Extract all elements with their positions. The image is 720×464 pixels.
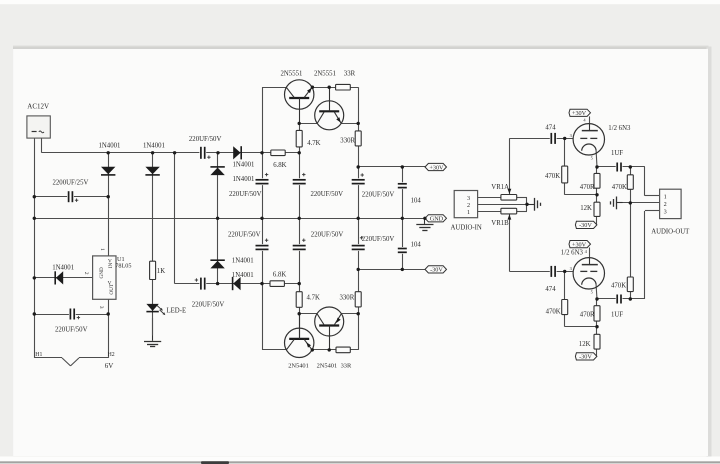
wire GND flag stub bbox=[425, 218, 427, 220]
svg-text:330R: 330R bbox=[340, 138, 355, 145]
svg-text:1: 1 bbox=[664, 194, 667, 201]
wire 104 cap bottom branch bbox=[402, 218, 404, 269]
junction dot 2 bbox=[151, 151, 154, 154]
svg-text:H2: H2 bbox=[108, 352, 115, 358]
resistor 470K load ch2 bbox=[611, 277, 633, 292]
resistor 33R top bbox=[336, 84, 351, 90]
svg-text:AUDIO-OUT: AUDIO-OUT bbox=[651, 229, 690, 236]
svg-text:220UF/50V: 220UF/50V bbox=[55, 326, 88, 333]
power flag -30V ch2 bbox=[575, 353, 597, 361]
wire Q4 emitter link bbox=[341, 313, 358, 315]
junction dot 33 bbox=[401, 268, 404, 271]
svg-text:1UF: 1UF bbox=[611, 311, 623, 318]
diode D1 1N4001 bbox=[99, 143, 121, 175]
diode D10 1N4001 bottom pump bbox=[232, 272, 254, 290]
wire audio-in pin2 to earth bbox=[478, 204, 534, 206]
svg-text:AUDIO-IN: AUDIO-IN bbox=[451, 224, 482, 231]
resistor 470K grid ch2 bbox=[546, 300, 568, 316]
svg-text:220UF/50V: 220UF/50V bbox=[189, 136, 222, 143]
wire Q2 collector link bbox=[299, 123, 317, 125]
wire 78L05 VOUT pin3 bbox=[108, 299, 110, 358]
svg-text:220UF/50V: 220UF/50V bbox=[228, 231, 261, 238]
wire Q1 emitter to 33R bbox=[312, 87, 358, 123]
junction dot 35 bbox=[563, 137, 566, 140]
svg-text:470K: 470K bbox=[546, 308, 561, 315]
wire VR1B right terminal bbox=[517, 204, 527, 211]
capacitor 104 top bbox=[397, 182, 422, 204]
svg-text:1N4001: 1N4001 bbox=[143, 143, 165, 150]
junction dot 36 bbox=[595, 165, 598, 168]
wire cathode ch2 bbox=[595, 285, 598, 356]
capacitor 474 input ch2 bbox=[545, 265, 556, 293]
resistor 470R ch1 bbox=[580, 173, 600, 190]
resistor 330R top bbox=[340, 131, 361, 146]
junction dot 8 bbox=[33, 195, 36, 198]
svg-text:2: 2 bbox=[83, 272, 89, 275]
junction dot 42 bbox=[629, 297, 632, 300]
junction dot 31 bbox=[401, 165, 404, 168]
regulator U1 78L05 bbox=[83, 248, 132, 309]
junction dot 43 bbox=[595, 325, 598, 328]
wire 2200UF row bbox=[34, 196, 108, 198]
diode D6 1N4001 clamp up bbox=[210, 167, 254, 183]
svg-text:6.8K: 6.8K bbox=[273, 162, 286, 169]
svg-text:330R: 330R bbox=[340, 294, 355, 301]
svg-text:33R: 33R bbox=[341, 363, 352, 370]
junction dot 40 bbox=[563, 270, 566, 273]
wire VR1A right terminal bbox=[517, 197, 527, 204]
svg-text:4.7K: 4.7K bbox=[307, 294, 320, 301]
svg-text:OUT: OUT bbox=[109, 283, 115, 294]
junction dot 18 bbox=[423, 217, 426, 220]
svg-text:-30V: -30V bbox=[579, 222, 592, 229]
wire D1 branch bbox=[108, 153, 110, 256]
svg-text:+30V: +30V bbox=[572, 241, 587, 248]
svg-text:VR1B: VR1B bbox=[491, 220, 509, 227]
svg-text:470R: 470R bbox=[580, 311, 595, 318]
svg-text:3: 3 bbox=[467, 195, 470, 202]
wire 330R to +30V output bbox=[358, 123, 360, 218]
svg-text:220UF/50V: 220UF/50V bbox=[362, 236, 395, 243]
ground symbol output ch1 bbox=[611, 197, 623, 210]
wire +30V rail bbox=[358, 166, 425, 168]
transistor Q1 2N5551 bbox=[281, 71, 314, 124]
junction dot 5 bbox=[260, 151, 263, 154]
junction dot 38 bbox=[595, 193, 598, 196]
connector AUDIO-OUT bbox=[651, 189, 690, 235]
junction dot 17 bbox=[401, 217, 404, 220]
junction dot 6 bbox=[298, 151, 301, 154]
wire Q1 collector rail bbox=[262, 87, 286, 89]
potentiometer VR1A bbox=[491, 184, 516, 200]
wire plate flag ch1 bbox=[589, 116, 591, 123]
wire positive pump diode branch bbox=[217, 153, 219, 284]
ground symbol under LED bbox=[144, 335, 161, 346]
wire gnd row ch1 bbox=[617, 202, 660, 204]
junction dot 10 bbox=[33, 276, 36, 279]
svg-text:1N4001: 1N4001 bbox=[233, 162, 255, 169]
capacitor 474 input ch1 bbox=[545, 125, 556, 145]
junction dot 3 bbox=[173, 151, 176, 154]
wire cathode ch1 bbox=[595, 151, 598, 225]
resistor 1K bbox=[150, 261, 166, 279]
resistor 6.8K bottom bbox=[270, 271, 286, 286]
wire LED to ground bbox=[152, 318, 154, 335]
svg-text:12K: 12K bbox=[580, 205, 592, 212]
junction dot 24 bbox=[311, 86, 314, 89]
svg-text:1: 1 bbox=[467, 209, 470, 216]
connector AUDIO-IN bbox=[451, 191, 482, 232]
junction dot 12 bbox=[107, 312, 110, 315]
svg-text:1: 1 bbox=[99, 248, 105, 251]
svg-text:2200UF/25V: 2200UF/25V bbox=[53, 179, 89, 186]
svg-text:AC12V: AC12V bbox=[27, 103, 49, 111]
wire 78L05 VIN pin2 bbox=[34, 277, 92, 279]
svg-text:1K: 1K bbox=[157, 268, 165, 275]
wire ground bus bbox=[34, 218, 425, 220]
ground symbol under GND flag bbox=[416, 218, 433, 230]
junction dot 39 bbox=[629, 201, 632, 204]
svg-text:3: 3 bbox=[664, 208, 667, 215]
svg-text:220UF/50V: 220UF/50V bbox=[229, 191, 262, 198]
wire AC pin1 left rail bbox=[34, 138, 36, 358]
capacitor 1UF ch1 bbox=[611, 150, 623, 172]
power flag -30V bbox=[425, 266, 447, 274]
junction dot 1 bbox=[107, 151, 110, 154]
heater labels H1 H2 6V bbox=[35, 352, 114, 370]
junction dot 9 bbox=[33, 217, 36, 220]
junction dot 22 bbox=[298, 122, 301, 125]
svg-text:2N5551: 2N5551 bbox=[314, 71, 336, 78]
diode D12 1N4001 heater rectifier bbox=[52, 264, 74, 284]
wire heater filament bbox=[34, 358, 108, 366]
diode D11 1N4001 clamp up2 bbox=[210, 257, 253, 268]
potentiometer VR1A wiper arrow bbox=[508, 189, 512, 194]
svg-text:IN: IN bbox=[108, 262, 114, 268]
wire grid leak ch2 bbox=[565, 271, 598, 326]
wire 104 cap top branch bbox=[402, 167, 404, 218]
diode D5 1N4001 top pump bbox=[233, 146, 255, 168]
svg-text:474: 474 bbox=[545, 286, 556, 293]
svg-text:474: 474 bbox=[545, 125, 556, 132]
wire Q3 emitter to 33R2 bbox=[312, 314, 358, 350]
wire Q3 collector rail bbox=[262, 349, 286, 351]
capacitor 1UF ch2 bbox=[611, 294, 623, 319]
capacitor C series top 220UF/50V bbox=[189, 136, 222, 160]
tube U2B 1/2 6N3 bbox=[561, 249, 605, 295]
svg-text:1N4001: 1N4001 bbox=[232, 272, 254, 279]
svg-text:220UF/50V: 220UF/50V bbox=[311, 191, 344, 198]
junction dot 41 bbox=[595, 297, 598, 300]
svg-text:78L05: 78L05 bbox=[115, 263, 131, 270]
svg-text:220UF/50V: 220UF/50V bbox=[311, 231, 344, 238]
wire VR1B wiper to grid ch2 bbox=[509, 213, 573, 271]
wire node A vertical bbox=[262, 87, 264, 350]
svg-text:33R: 33R bbox=[344, 71, 356, 78]
wire -30V rail bbox=[358, 269, 425, 271]
wire plate flag ch2 bbox=[589, 248, 591, 258]
wire AC pin2 to top bus bbox=[42, 138, 300, 153]
wire AC coupling branch to negative pump bbox=[175, 153, 300, 284]
power flag +30V ch1 bbox=[569, 109, 591, 117]
svg-text:104: 104 bbox=[411, 198, 422, 205]
svg-text:4.7K: 4.7K bbox=[307, 140, 320, 147]
wire node B vertical bbox=[299, 123, 301, 337]
svg-text:6V: 6V bbox=[105, 362, 114, 370]
junction dot 13 bbox=[216, 217, 219, 220]
capacitor C7 220UF/50V bbox=[292, 231, 344, 251]
resistor 33R bottom bbox=[336, 347, 350, 353]
power flag +30V bbox=[425, 163, 447, 171]
potentiometer VR1B bbox=[491, 208, 516, 227]
junction dot 25 bbox=[328, 86, 331, 89]
junction dot 7 bbox=[107, 195, 110, 198]
transistor Q2 2N5551 bbox=[314, 71, 356, 130]
svg-text:12K: 12K bbox=[579, 341, 591, 348]
capacitor C series bottom 220UF/50V bbox=[192, 277, 225, 309]
svg-text:1N4001: 1N4001 bbox=[99, 143, 121, 150]
junction dot 15 bbox=[298, 217, 301, 220]
svg-text:1UF: 1UF bbox=[611, 150, 623, 157]
wire Q4 collector link bbox=[299, 313, 317, 315]
svg-text:220UF/50V: 220UF/50V bbox=[362, 191, 395, 198]
junction dot 28 bbox=[311, 348, 314, 351]
svg-text:1/2 6N3: 1/2 6N3 bbox=[561, 250, 584, 257]
resistor 330R bottom bbox=[340, 292, 362, 307]
diode D2 1N4001 bbox=[143, 143, 165, 175]
svg-text:470K: 470K bbox=[545, 173, 560, 180]
svg-text:1N4001: 1N4001 bbox=[233, 176, 255, 183]
junction dot 21 bbox=[298, 282, 301, 285]
resistor 4.7K top bbox=[296, 130, 320, 147]
junction dot 23 bbox=[357, 122, 360, 125]
svg-text:1N4001: 1N4001 bbox=[232, 257, 254, 264]
junction dot 26 bbox=[298, 312, 301, 315]
resistor 470K grid ch1 bbox=[545, 166, 568, 183]
junction dot 11 bbox=[33, 312, 36, 315]
svg-text:LED-E: LED-E bbox=[167, 308, 187, 315]
svg-text:6.8K: 6.8K bbox=[273, 271, 286, 278]
junction dot 27 bbox=[357, 312, 360, 315]
resistor 12K ch2 bbox=[579, 334, 600, 349]
junction dot 30 bbox=[357, 165, 360, 168]
wire audio-in pin1 to VR1B bbox=[478, 211, 501, 213]
tube U2A 1/2 6N3 bbox=[570, 118, 631, 161]
svg-text:2N5401: 2N5401 bbox=[317, 363, 338, 370]
svg-text:220UF/50V: 220UF/50V bbox=[192, 302, 225, 309]
power flag -30V ch1 bbox=[575, 221, 597, 229]
resistor 470K load ch1 bbox=[612, 175, 634, 191]
capacitor 104 bottom bbox=[397, 242, 422, 254]
svg-text:+30V: +30V bbox=[572, 110, 587, 117]
wire 470K load link bbox=[630, 167, 632, 299]
junction dot 19 bbox=[216, 282, 219, 285]
capacitor C4 220UF/50V bbox=[292, 173, 343, 198]
wire output ch2 bbox=[597, 211, 660, 300]
svg-text:-30V: -30V bbox=[579, 354, 592, 361]
capacitor C3 220UF/50V bbox=[229, 173, 270, 198]
wire 330R2 branch bbox=[358, 218, 360, 313]
svg-text:470K: 470K bbox=[612, 184, 627, 191]
capacitor C5 220UF/50V output bbox=[351, 173, 395, 198]
ground symbol at volume pots bbox=[528, 198, 541, 211]
junction dot 34 bbox=[525, 203, 528, 206]
svg-text:2N5551: 2N5551 bbox=[281, 71, 303, 78]
svg-text:3: 3 bbox=[98, 306, 104, 309]
junction dot 29 bbox=[328, 348, 331, 351]
svg-text:104: 104 bbox=[411, 242, 422, 249]
wire audio-in pin3 to VR1A bbox=[478, 197, 501, 199]
svg-text:470R: 470R bbox=[580, 184, 595, 191]
resistor 6.8K top bbox=[271, 150, 287, 169]
svg-text:H1: H1 bbox=[35, 352, 42, 358]
wire output ch1 bbox=[597, 167, 660, 196]
svg-text:VR1A: VR1A bbox=[491, 184, 509, 191]
junction dot 4 bbox=[216, 151, 219, 154]
junction dot 37 bbox=[629, 165, 632, 168]
svg-text:2N5401: 2N5401 bbox=[288, 363, 309, 370]
transistor Q4 2N5401 bbox=[315, 307, 352, 370]
LED LED-E indicator bbox=[146, 304, 186, 315]
resistor 4.7K bottom bbox=[296, 292, 320, 308]
capacitor C6 220UF/50V bbox=[228, 231, 270, 251]
svg-text:-30V: -30V bbox=[430, 267, 443, 274]
junction dot 16 bbox=[357, 217, 360, 220]
svg-text:+30V: +30V bbox=[429, 164, 444, 171]
svg-text:GND: GND bbox=[99, 267, 105, 278]
capacitor 220UF/50V heater bbox=[55, 308, 88, 334]
wire D2 branch to 1K LED bbox=[152, 153, 154, 335]
capacitor C8 220UF/50V output2 bbox=[351, 236, 395, 251]
svg-text:1N4001: 1N4001 bbox=[52, 264, 74, 271]
junction dot 32 bbox=[357, 268, 360, 271]
junction dot 20 bbox=[260, 282, 263, 285]
wire heater cap row bbox=[34, 314, 108, 316]
junction dot 14 bbox=[260, 217, 263, 220]
resistor 12K ch1 bbox=[580, 202, 600, 216]
svg-text:2: 2 bbox=[664, 201, 667, 208]
capacitor 2200UF/25V bbox=[53, 179, 89, 203]
resistor 470R ch2 bbox=[580, 306, 600, 321]
svg-text:470K: 470K bbox=[611, 282, 626, 289]
wire grid leak ch1 bbox=[565, 138, 598, 194]
svg-text:1/2 6N3: 1/2 6N3 bbox=[608, 125, 631, 132]
power flag GND bbox=[425, 215, 447, 223]
connector AC12V input bbox=[27, 103, 50, 139]
potentiometer VR1B wiper arrow bbox=[508, 214, 512, 219]
wire Q2 emitter link bbox=[341, 123, 358, 125]
svg-text:GND: GND bbox=[430, 216, 444, 223]
wire VR1A wiper to grid ch1 bbox=[509, 138, 573, 194]
transistor Q3 2N5401 bbox=[285, 314, 314, 370]
power flag +30V ch2 bbox=[569, 241, 591, 249]
